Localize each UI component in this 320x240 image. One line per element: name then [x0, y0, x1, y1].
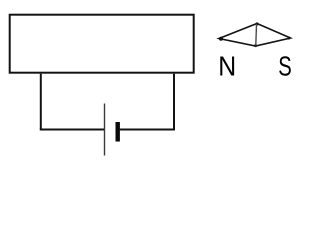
compass needle tip dot (left) [219, 37, 223, 41]
wire: bottom horizontal left segment to battery [40, 129, 105, 131]
battery long plate (positive terminal) [104, 104, 106, 156]
wire: bottom horizontal right segment from battery [120, 129, 176, 131]
svg-text:N: N [218, 50, 236, 81]
compass needle bottom vertex dot [254, 44, 257, 47]
compass needle top vertex dot [255, 22, 258, 25]
compass needle (rhombus) [219, 24, 291, 47]
compass needle tip dot (right) [288, 37, 291, 40]
svg-text:S: S [278, 50, 292, 81]
solenoid box (rectangle) [10, 15, 194, 73]
compass pivot (vertical line) [255, 24, 258, 46]
wire: right vertical from bottom wire up to box [173, 74, 175, 131]
wire: left vertical from box to bottom wire [40, 74, 42, 130]
battery short thick plate (negative terminal) [115, 122, 119, 142]
